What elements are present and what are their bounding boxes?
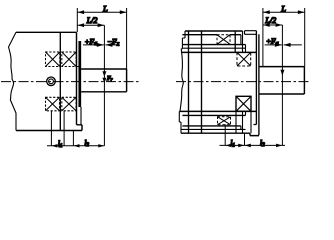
svg-text:L: L: [102, 4, 108, 14]
L dimension right extension lines: [263, 8, 305, 67]
svg-text:l2: l2: [85, 140, 90, 148]
bearing B3 solid lower near step: [236, 96, 251, 111]
svg-text:l2: l2: [260, 139, 265, 148]
svg-text:L/2: L/2: [264, 16, 276, 25]
L dimension line right: [263, 11, 305, 13]
pin circle on axis: [47, 77, 56, 86]
housing left break edge: [9, 32, 17, 130]
shaft large section top surface: [181, 51, 256, 53]
force vertical right: [281, 25, 283, 145]
-Fx force arrow: [105, 44, 119, 46]
force application vertical line: [103, 25, 105, 146]
bearing seat vertical top: [234, 31, 236, 52]
svg-text:L: L: [280, 4, 286, 14]
L/2 dimension line right: [263, 24, 283, 26]
housing bottom edge: [16, 130, 82, 132]
radial reaction double arrow at axis: [102, 71, 106, 83]
bearing box top-left (dashed): [46, 52, 60, 67]
sleeve band lines top: [182, 34, 241, 36]
L/2 dimension line: [77, 24, 104, 26]
+Fa force arrow: [83, 44, 104, 46]
housing top edge: [16, 31, 77, 33]
bearing box bottom-right (dashed): [62, 97, 76, 111]
L dimension extension lines: [77, 8, 126, 69]
svg-text:+Fa: +Fa: [85, 37, 98, 47]
bearing B4 dashed bottom-left flat: [218, 117, 231, 125]
+Fa arrow right figure: [265, 44, 282, 46]
extension lines to bottom dims right: [225, 124, 244, 145]
svg-text:+Fa: +Fa: [266, 37, 279, 47]
svg-text:l1: l1: [58, 141, 63, 149]
housing right edge: [77, 32, 83, 130]
housing top edge: [185, 30, 243, 32]
L dimension line: [77, 11, 126, 13]
bearing cap lip top: [245, 31, 257, 35]
second arrow (pointing left): [284, 44, 302, 46]
axis centerline left figure: [1, 81, 141, 83]
shaft body: [81, 69, 127, 92]
svg-text:−Fx: −Fx: [107, 37, 120, 47]
axis centerline right figure: [176, 81, 310, 83]
housing bottom edge with step: [181, 133, 259, 135]
shaft stub: [259, 67, 305, 94]
housing divider wall: [59, 32, 61, 130]
svg-text:L/2: L/2: [86, 16, 98, 25]
bearing B2 dashed upper near step: [237, 52, 251, 66]
bearing box top-right (dashed): [62, 52, 76, 67]
sleeve verticals: [189, 31, 202, 133]
housing left break edge stepped: [181, 31, 185, 49]
bottom dimension line right: [220, 144, 286, 146]
radial arrow at axis right: [280, 70, 284, 76]
shaft flange bar: [78, 41, 81, 107]
svg-text:l1: l1: [231, 140, 236, 148]
step face (shaft shoulder) twin lines: [254, 31, 259, 136]
bottom dimension line: [47, 145, 104, 147]
shaft large section bottom surface: [179, 110, 256, 112]
sleeve band lines bottom: [182, 114, 245, 116]
extension lines to bottom dimension: [51, 111, 73, 146]
bearing box bottom-left (dashed): [46, 97, 60, 111]
bearing B1 dashed top-left flat: [217, 35, 230, 45]
bearing bottom tick to flange: [77, 66, 80, 68]
